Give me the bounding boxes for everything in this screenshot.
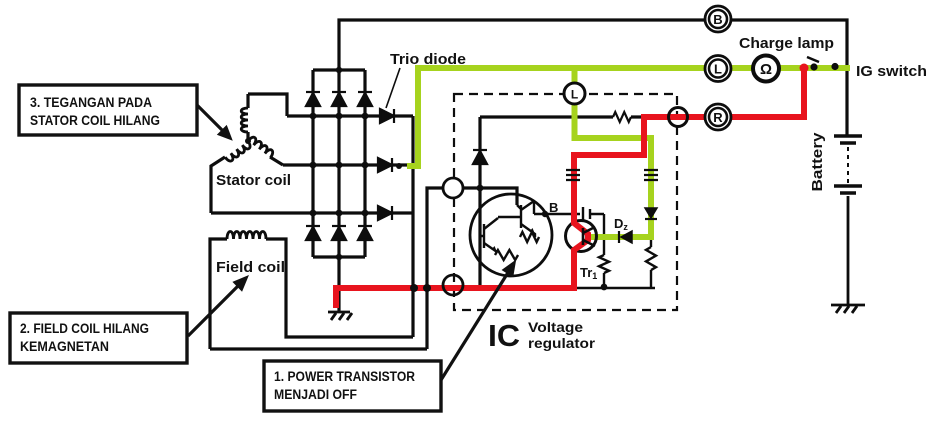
- svg-text:1. POWER TRANSISTOR: 1. POWER TRANSISTOR: [274, 369, 415, 384]
- svg-text:Battery: Battery: [809, 132, 826, 192]
- svg-text:Stator coil: Stator coil: [216, 172, 291, 189]
- svg-text:L: L: [571, 88, 578, 102]
- svg-text:3. TEGANGAN PADA: 3. TEGANGAN PADA: [30, 95, 152, 110]
- svg-text:B: B: [713, 12, 722, 27]
- svg-text:IG switch: IG switch: [856, 63, 927, 80]
- svg-text:Voltage: Voltage: [528, 319, 583, 335]
- svg-text:R: R: [713, 110, 723, 125]
- svg-text:Trio diode: Trio diode: [390, 51, 466, 68]
- svg-text:STATOR COIL HILANG: STATOR COIL HILANG: [30, 113, 160, 128]
- svg-text:IC: IC: [488, 318, 520, 353]
- svg-text:Field coil: Field coil: [216, 259, 285, 276]
- svg-text:L: L: [714, 62, 722, 77]
- svg-text:2. FIELD COIL HILANG: 2. FIELD COIL HILANG: [20, 321, 149, 336]
- svg-text:regulator: regulator: [528, 335, 596, 351]
- svg-text:B: B: [549, 200, 558, 215]
- svg-text:KEMAGNETAN: KEMAGNETAN: [20, 339, 109, 354]
- svg-text:Charge lamp: Charge lamp: [739, 35, 834, 52]
- svg-text:MENJADI OFF: MENJADI OFF: [274, 387, 357, 402]
- svg-text:Ω: Ω: [760, 61, 772, 78]
